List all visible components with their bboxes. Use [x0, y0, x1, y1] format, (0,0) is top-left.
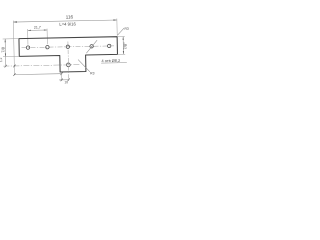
- svg-text:R3: R3: [124, 27, 129, 31]
- wire: right vertical dimension line: [122, 37, 124, 55]
- component: tab hole: [66, 63, 70, 67]
- svg-text:7/8: 7/8: [0, 46, 5, 52]
- wire: extension of bar bottom edge to the right: [117, 53, 125, 55]
- wire: tab hole horizontal centerline extended to left datum: [3, 65, 79, 67]
- node: R3 note at tab bottom-right: [78, 59, 90, 72]
- wire: left extension line of datum (x=13.9): [13, 21, 14, 75]
- svg-text:10: 10: [64, 80, 68, 84]
- wire: top dimension line 116: [13, 20, 116, 22]
- wire: bar hole centerline (dash-dot): [22, 46, 114, 48]
- svg-text:7/8″: 7/8″: [123, 42, 128, 50]
- svg-text:R3: R3: [90, 71, 95, 75]
- svg-text:L=4 9/16: L=4 9/16: [59, 21, 76, 26]
- node: tick at tab edge end: [60, 72, 62, 75]
- node: tick on centerline at left dim: [5, 65, 7, 68]
- wire: extension lines from holes 1,2 up to L2 dim: [27, 29, 29, 45]
- svg-text:116: 116: [66, 14, 74, 19]
- wire: extension of bar bottom edge to the left: [3, 55, 19, 57]
- node: ticks of short dim: [61, 79, 63, 82]
- node: top dim arrowheads: [13, 19, 117, 22]
- wire: short bottom dimension tab edge to hole center: [59, 79, 68, 81]
- svg-text:21,7: 21,7: [34, 26, 41, 30]
- wire: L2 dimension line between hole1 and hole2: [28, 29, 47, 31]
- svg-text:1.2: 1.2: [0, 57, 3, 62]
- svg-text:4 отв Ø8,2: 4 отв Ø8,2: [101, 58, 120, 63]
- node: R3 note at top-right corner: [117, 28, 124, 35]
- node: tick on centerline at datum: [13, 65, 15, 68]
- node: leader through hole 4: [86, 40, 97, 53]
- node: part outline (stepped plate): [19, 37, 118, 73]
- wire: bottom dimension line from datum to tab edge: [14, 73, 61, 76]
- wire: extension of bar top edge to the right: [117, 36, 125, 38]
- component: hole 2: [46, 45, 49, 48]
- component: hole 1: [26, 46, 29, 49]
- wire: extension of bar top edge to the left: [3, 38, 19, 40]
- component: hole 5: [107, 44, 110, 47]
- component: hole 4: [90, 45, 93, 48]
- wire: tab hole vertical centerline: [67, 41, 70, 80]
- wire: left vertical dimension line: [4, 39, 7, 66]
- node: tick at datum corner: [13, 73, 15, 76]
- wire: tab left edge extension downwards: [61, 73, 63, 81]
- component: hole 3: [66, 45, 69, 48]
- wire: right extension line (x=117.4) above part: [116, 18, 118, 35]
